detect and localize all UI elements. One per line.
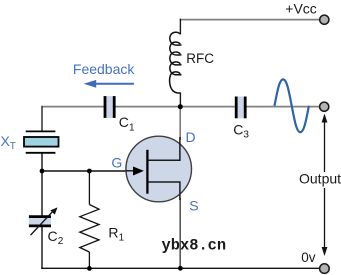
svg-text:1: 1 [129, 123, 135, 134]
svg-text:0v: 0v [301, 250, 316, 265]
svg-text:Feedback: Feedback [73, 61, 135, 77]
svg-text:T: T [10, 141, 16, 152]
svg-text:G: G [111, 154, 122, 170]
svg-text:S: S [189, 198, 198, 214]
svg-text:C: C [233, 121, 243, 137]
svg-text:C: C [48, 228, 58, 244]
svg-text:D: D [186, 129, 196, 145]
svg-text:C: C [119, 114, 129, 130]
svg-text:1: 1 [119, 233, 125, 244]
svg-text:RFC: RFC [186, 51, 214, 66]
svg-text:3: 3 [243, 130, 249, 141]
svg-text:2: 2 [58, 236, 64, 247]
svg-text:+Vcc: +Vcc [285, 1, 317, 17]
svg-text:Output: Output [299, 171, 341, 187]
svg-text:R: R [108, 224, 118, 240]
svg-text:ybx8.cn: ybx8.cn [162, 237, 227, 255]
